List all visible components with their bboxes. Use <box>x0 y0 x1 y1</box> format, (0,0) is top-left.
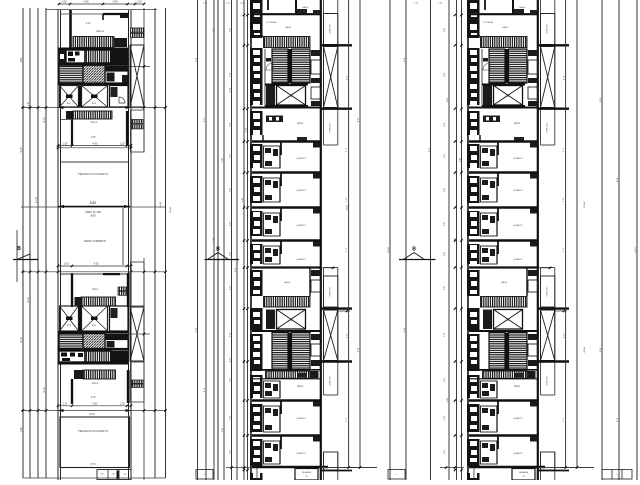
svg-text:QUARTO: QUARTO <box>296 452 306 455</box>
strip1 cantina boxes bottom <box>97 470 131 480</box>
strip1 park band second label <box>84 208 123 265</box>
svg-text:TERR 2.90: TERR 2.90 <box>330 24 332 33</box>
strip1 bottom site line <box>23 477 166 479</box>
strip 3 = copy of strip 2 <box>467 0 594 480</box>
strip2 gallery row 1 outline <box>324 0 338 145</box>
vertical dimension labels left margin <box>20 57 46 432</box>
svg-text:41.44: 41.44 <box>170 206 172 212</box>
svg-text:TERRACO SCOPERTO: TERRACO SCOPERTO <box>78 172 109 176</box>
strip1 right column outline box module2 lower <box>131 362 145 402</box>
dimension chain lines right margin <box>602 0 637 480</box>
strip2 bathroom cells column <box>264 146 281 464</box>
strip1 box garage X rooms module2 <box>60 306 129 331</box>
strip1 small terrace room <box>60 111 127 145</box>
svg-text:QUARTO: QUARTO <box>296 189 306 192</box>
vertical dimension labels mid-left chains <box>160 27 248 432</box>
svg-text:4.90: 4.90 <box>93 403 98 406</box>
strip1 hatched planter boxes inside, module2 <box>118 287 127 295</box>
svg-text:4.90: 4.90 <box>93 142 98 145</box>
strip1 stair tread band module1 <box>73 37 114 48</box>
dimension line below module1 <box>21 106 167 109</box>
strip2 gallery bottom boxes <box>321 452 352 480</box>
strip2 right body wall <box>320 0 322 480</box>
strip1 stair band module2 <box>75 297 116 306</box>
svg-text:B: B <box>412 247 416 253</box>
svg-text:BOX: BOX <box>92 325 97 327</box>
dimension lines module2 <box>21 263 167 273</box>
dimension chain lines between strip 1 and strip 2 <box>155 0 248 480</box>
svg-text:BOX: BOX <box>67 325 72 327</box>
strip1 middle dimension line 8.80 <box>21 201 166 217</box>
svg-text:1.20: 1.20 <box>136 0 142 4</box>
strip2 dimension arrow ticks <box>322 267 350 313</box>
strip1 hatched planter boxes right, below module2 <box>132 380 144 387</box>
strip2 stair tread band C below flights <box>252 371 320 379</box>
svg-text:4.90: 4.90 <box>86 22 91 25</box>
svg-text:61.44: 61.44 <box>584 201 586 207</box>
svg-text:SALA: SALA <box>297 122 304 125</box>
svg-text:PARK Sc.150: PARK Sc.150 <box>85 210 101 214</box>
svg-text:8.10: 8.10 <box>43 117 46 122</box>
svg-text:QUARTO: QUARTO <box>296 417 306 420</box>
dimension lines below module2 <box>21 403 167 416</box>
strip 1 site top line <box>46 9 157 11</box>
svg-text:1.00: 1.00 <box>64 263 69 266</box>
svg-text:TERR 2.90: TERR 2.90 <box>330 287 332 296</box>
strip1 right hatched planter boxes top <box>131 28 145 37</box>
strip2 lower rooms <box>252 373 328 480</box>
svg-text:PARK COPERTO: PARK COPERTO <box>84 239 107 243</box>
svg-text:SALA: SALA <box>297 385 304 388</box>
site boundary and dimension chain lines, left margin <box>23 8 46 478</box>
strip2 top rooms <box>252 0 320 29</box>
svg-text:SALA: SALA <box>91 120 98 124</box>
svg-text:B: B <box>17 246 21 252</box>
strip 1 top dimension line <box>58 0 145 5</box>
strip1 right column X shaft module2 <box>129 307 150 361</box>
tick marks strip2 left chains <box>243 14 249 471</box>
svg-text:VARANDA: VARANDA <box>302 471 312 474</box>
strip1 stair band below module1 <box>66 111 112 119</box>
strip1 box garage X rooms module1 <box>60 86 108 108</box>
svg-text:5.10: 5.10 <box>20 337 23 342</box>
svg-text:5.10: 5.10 <box>20 147 23 152</box>
svg-text:8.80: 8.80 <box>90 201 96 205</box>
strip2 stair flights B <box>252 331 321 370</box>
strip2 gallery terrace box 1 <box>324 14 338 45</box>
strip2 left exterior wall with service fixtures <box>250 0 263 480</box>
svg-text:QUARTO: QUARTO <box>296 224 306 227</box>
strip1 right column outline box module2 upper <box>131 262 145 306</box>
svg-text:BOX: BOX <box>92 103 97 105</box>
svg-text:1.30: 1.30 <box>63 403 68 406</box>
strip2 gallery terrace box 3 <box>324 276 338 307</box>
strip2 sala room <box>263 116 307 142</box>
strip1 hatched planter boxes right, below module1 <box>132 120 144 129</box>
svg-text:BOX: BOX <box>67 103 72 105</box>
svg-text:41.44: 41.44 <box>388 246 390 252</box>
dimension chain lines between strip 2 and strip 3 <box>390 0 462 480</box>
strip2 right boundary chain lines <box>322 0 377 469</box>
strip 1 outer walls <box>58 8 144 480</box>
strip2 quarto rooms band <box>252 142 320 268</box>
svg-text:8.70: 8.70 <box>89 412 95 416</box>
svg-text:1.20: 1.20 <box>120 142 125 145</box>
strip1 lower terrace rectangle <box>60 417 130 468</box>
svg-text:61.44: 61.44 <box>347 204 349 210</box>
svg-text:TERRACO SCOPERTO: TERRACO SCOPERTO <box>78 429 109 433</box>
svg-text:SALA: SALA <box>302 6 308 9</box>
chain segment numbers strip2 left <box>229 27 231 454</box>
strip1 upper terrace <box>60 162 128 176</box>
bottom small store boxes between strips <box>196 470 213 480</box>
strip1 right column X shaft module1 <box>129 45 150 107</box>
top chain numbers <box>203 3 443 5</box>
svg-text:4.90: 4.90 <box>83 0 89 4</box>
svg-text:61.44: 61.44 <box>160 201 162 207</box>
svg-text:4.35: 4.35 <box>91 396 96 399</box>
strip1 stair band right blob <box>114 38 127 47</box>
svg-text:9.10: 9.10 <box>27 297 30 302</box>
strip2 gallery X shaft 2 <box>321 309 352 362</box>
strip1 right column outline box module1 lower <box>131 110 145 152</box>
strip1 dense service block module2 <box>58 331 128 365</box>
svg-text:1.20: 1.20 <box>120 403 125 406</box>
svg-text:21.10: 21.10 <box>27 101 30 108</box>
strip1 dense service block (bath/kitchen/stairs) module1 <box>58 48 128 86</box>
strip2 elevator A <box>265 84 308 108</box>
svg-text:4.35: 4.35 <box>94 263 99 266</box>
strip1 module1 right service cell <box>110 86 129 108</box>
svg-text:41.44: 41.44 <box>584 346 586 352</box>
svg-text:COZINHA: COZINHA <box>266 21 276 24</box>
section marker B left <box>13 230 39 282</box>
svg-text:8.70: 8.70 <box>90 462 96 466</box>
strip2 gallery X shaft 1 <box>321 45 352 108</box>
strip2 stair tread band A <box>252 36 310 48</box>
svg-text:QUARTO: QUARTO <box>296 258 306 261</box>
svg-text:3.95: 3.95 <box>20 57 23 62</box>
vertical dimension labels right margin <box>584 97 637 422</box>
strip1 room below module2 <box>72 370 130 404</box>
svg-text:SALA: SALA <box>285 26 291 29</box>
svg-text:8.10: 8.10 <box>43 387 46 392</box>
svg-text:3.45: 3.45 <box>112 0 118 4</box>
strip2 kitchen B <box>284 268 320 296</box>
svg-text:TERR 2.90: TERR 2.90 <box>330 376 332 385</box>
strip1 module1 upper rooms walls <box>60 10 128 49</box>
strip2 stair flights A <box>265 49 310 106</box>
svg-text:ELEV: ELEV <box>288 96 294 98</box>
svg-text:SALA: SALA <box>92 288 99 291</box>
svg-text:B: B <box>216 247 220 253</box>
strip2 stair tread band B <box>264 297 311 308</box>
tick marks strip3 left chains <box>454 14 463 471</box>
vertical dimension labels mid-right chains <box>347 57 462 402</box>
svg-text:ELEV: ELEV <box>288 320 294 322</box>
svg-text:4.46: 4.46 <box>20 427 23 432</box>
bottom dimension segments <box>226 466 464 468</box>
dimension lines under small terrace <box>57 142 132 149</box>
svg-text:8.80: 8.80 <box>90 214 96 218</box>
svg-text:1.30: 1.30 <box>63 142 68 145</box>
strip1 stair tread band module2 bottom <box>74 370 116 379</box>
svg-text:21.10: 21.10 <box>635 246 637 252</box>
strip2 gallery row 2 outline <box>324 268 338 396</box>
svg-text:QUARTO: QUARTO <box>296 157 306 160</box>
svg-text:1.75: 1.75 <box>305 476 309 478</box>
chain segment numbers strip3 left <box>444 27 446 454</box>
svg-text:1.05: 1.05 <box>61 0 67 4</box>
strip2 elevator <box>266 310 306 330</box>
strip2 right cell beside stairs <box>252 50 321 108</box>
section marker B right <box>399 247 436 260</box>
strip1 room above stairs module2 <box>60 273 130 307</box>
svg-text:SALA: SALA <box>92 381 99 385</box>
svg-text:41.44: 41.44 <box>35 196 38 203</box>
section marker B middle <box>205 247 240 260</box>
svg-text:4.35: 4.35 <box>90 135 96 139</box>
svg-text:TERR 2.90: TERR 2.90 <box>330 123 332 132</box>
svg-text:SALA: SALA <box>284 281 290 284</box>
svg-text:SALA: SALA <box>96 29 104 33</box>
